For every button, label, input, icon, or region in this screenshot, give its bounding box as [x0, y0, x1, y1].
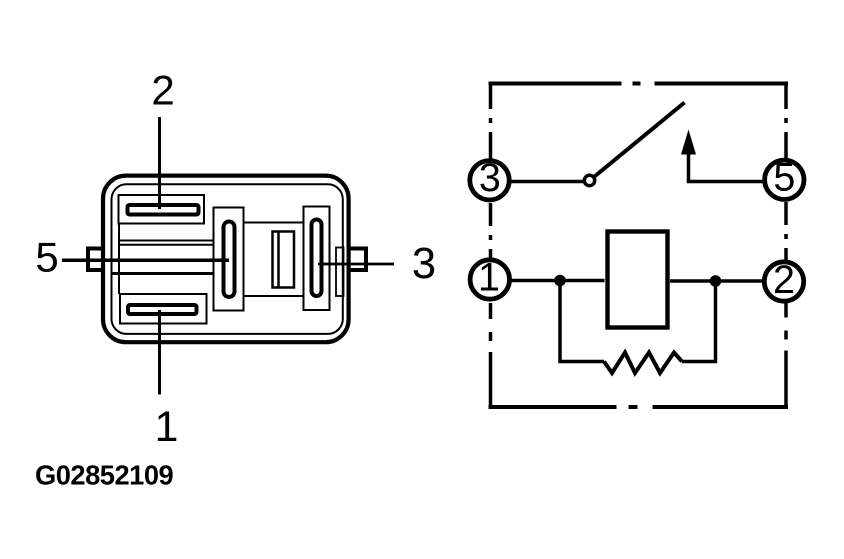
pin 1 cavity box: [120, 294, 207, 324]
side rib right: [336, 248, 344, 297]
resistor branch left drop wire: [560, 281, 604, 362]
svg-text:1: 1: [155, 403, 179, 451]
wire arrow corner to terminal5: [689, 180, 764, 182]
bridge line top: [244, 222, 304, 224]
switch travel arrow shaft: [687, 152, 691, 182]
pin 3 terminal slot: [312, 220, 322, 297]
relay connector body inner shell: [112, 184, 343, 334]
terminal 3 circle: [470, 161, 509, 200]
ridge line upper a: [119, 240, 214, 242]
schematic boundary left upper: [489, 82, 493, 160]
terminal 2 circle: [764, 262, 803, 301]
center key rib divider: [277, 232, 280, 288]
wire terminal1 to coil: [511, 279, 605, 283]
leader line pin 3: [318, 263, 394, 266]
cavity divider vertical line: [118, 224, 120, 295]
svg-text:1: 1: [478, 255, 500, 299]
wire terminal3 to switch pivot: [511, 180, 584, 184]
resistor branch right rise wire: [682, 281, 716, 362]
center key rib: [273, 232, 295, 288]
terminal 5 circle: [765, 160, 804, 199]
relay connector body outer shell: [103, 176, 349, 343]
resistor zigzag: [604, 353, 682, 374]
pin 3 cavity tower: [304, 207, 330, 311]
switch pivot contact: [584, 175, 594, 185]
schematic boundary right lower: [784, 302, 788, 408]
relay coil: [608, 232, 668, 328]
leader line pin 5: [62, 259, 229, 263]
schematic boundary left lower: [489, 303, 493, 407]
schematic boundary right upper: [784, 82, 788, 159]
pin 5 cavity tower: [214, 208, 244, 311]
leader line pin 1: [158, 310, 161, 395]
pin 1 terminal slot: [128, 305, 197, 314]
terminal 1 circle: [470, 260, 509, 299]
svg-text:3: 3: [479, 156, 501, 200]
leader line pin 2: [158, 117, 161, 209]
svg-text:3: 3: [412, 240, 436, 288]
schematic boundary top: [489, 82, 789, 86]
switch travel arrow head: [681, 130, 696, 155]
ridge line upper b: [119, 244, 214, 246]
ridge line lower: [112, 272, 214, 275]
mounting tab right: [349, 249, 366, 271]
wire coil to terminal2: [670, 279, 763, 283]
svg-text:2: 2: [773, 258, 795, 302]
switch blade: [595, 103, 685, 177]
svg-text:5: 5: [35, 234, 58, 281]
svg-text:5: 5: [773, 156, 795, 200]
schematic boundary left middle: [489, 203, 493, 259]
junction dot right: [710, 275, 722, 287]
pin 5 terminal slot: [224, 222, 235, 298]
schematic boundary bottom: [489, 405, 789, 409]
svg-text:2: 2: [151, 67, 174, 114]
pin 2 terminal slot: [128, 205, 199, 215]
pin 2 cavity box: [119, 195, 205, 224]
svg-text:G02852109: G02852109: [35, 459, 174, 490]
bridge line bottom: [244, 295, 304, 297]
junction dot left: [554, 275, 566, 287]
mounting tab left: [88, 249, 103, 271]
schematic boundary right middle: [784, 202, 788, 261]
